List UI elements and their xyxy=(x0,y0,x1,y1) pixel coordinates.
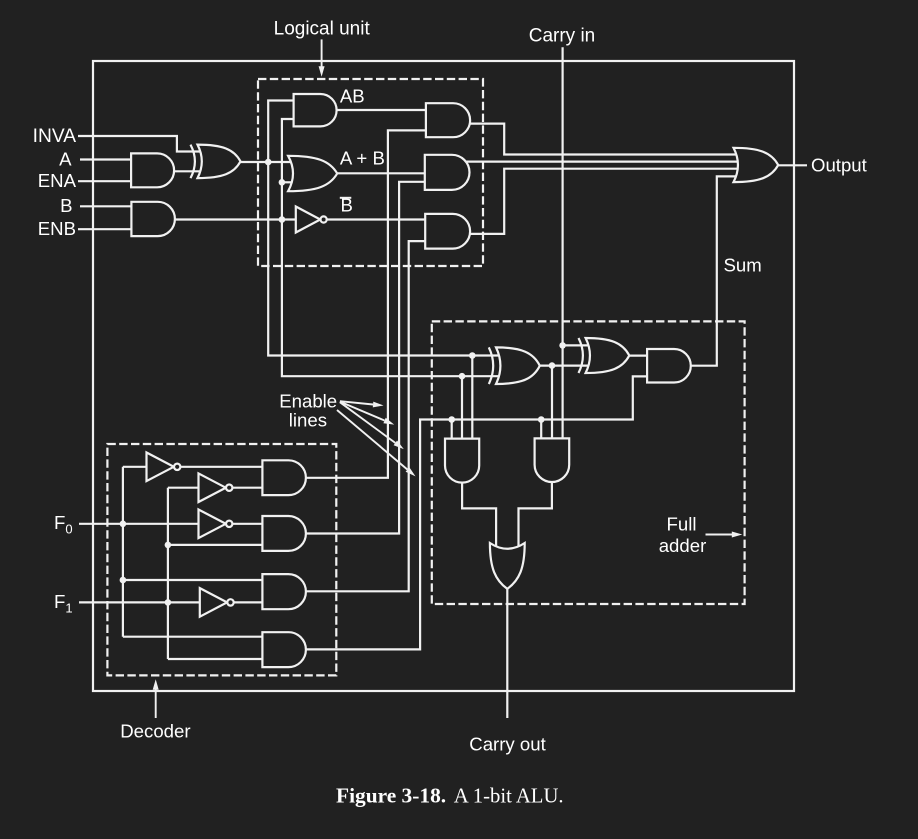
wire decoder bus1 (F0) vertical xyxy=(122,467,124,637)
svg-text:Carry in: Carry in xyxy=(529,26,596,47)
junction XOR1 output branch xyxy=(549,362,556,369)
overline of Bbar label xyxy=(340,197,352,199)
junction enable4 to right carry AND xyxy=(538,416,545,423)
wire branch B line down to left AND xyxy=(461,376,463,440)
and-gate B/ENB xyxy=(131,202,175,236)
and-gate AB xyxy=(294,94,337,126)
svg-text:A 1-bit ALU.: A 1-bit ALU. xyxy=(454,785,564,807)
svg-text:Output: Output xyxy=(811,155,868,176)
wire node B bus: up to AB gate bottom input, down to full adder XOR1 bottom input xyxy=(282,119,502,376)
inverter decoder inv4 triangle xyxy=(200,588,227,617)
inverter decoder inv1 bubble xyxy=(174,464,180,470)
xor-gate FA2 body xyxy=(586,338,630,373)
arrow line enable 3 xyxy=(340,402,395,443)
svg-text:adder: adder xyxy=(659,535,707,556)
arrow line logical unit pointer xyxy=(321,39,323,67)
svg-text:lines: lines xyxy=(289,410,327,431)
inverter decoder inv4 bubble xyxy=(227,599,233,605)
arrow line enable 2 xyxy=(340,402,385,421)
wire branch B bus to OR A+B bottom input xyxy=(282,181,297,183)
wire inv1 output to d1 top input xyxy=(181,466,265,468)
xor-gate FA2 (leading arc) xyxy=(579,338,583,373)
wire bus2 branch to d2 bottom input xyxy=(168,544,264,546)
svg-text:Figure 3-18.: Figure 3-18. xyxy=(336,783,446,807)
wire ENB input xyxy=(78,228,132,230)
and-gate decoder d3 xyxy=(262,574,306,609)
wire enable line 2: decoder d2 output up to LU middle AND bottom input xyxy=(306,182,426,534)
junction B line to left carry AND xyxy=(459,373,466,380)
svg-text:Carry out: Carry out xyxy=(469,734,546,755)
wire enable line 3: decoder d3 output up to LU bottom AND bottom input xyxy=(306,241,427,591)
or-gate output (right side) xyxy=(734,148,779,182)
svg-text:Decoder: Decoder xyxy=(120,721,190,742)
or-gate A+B xyxy=(288,156,337,191)
dashed box decoder xyxy=(107,444,336,675)
wire bus1 to inv1 input xyxy=(123,466,148,468)
xor-gate FA1 (leading arc) xyxy=(489,347,493,384)
outer enclosure box xyxy=(93,61,794,691)
wire LU top AND output to output OR (top of 3 parallel lines) xyxy=(470,124,742,155)
arrow line decoder pointer xyxy=(155,689,157,718)
wire inv4 output to d3 bottom input xyxy=(231,601,264,603)
and-gate sum (FA output AND) xyxy=(647,349,691,383)
wire bus1 to d4 top input xyxy=(123,636,264,638)
and-gate decoder d1 xyxy=(262,460,306,495)
xor-gate A (leading arc) xyxy=(191,145,195,179)
arrow line full adder pointer xyxy=(706,534,733,536)
wire F0 input to inverter inv3 xyxy=(79,523,200,525)
wire bus1 branch to d3 top input xyxy=(123,579,264,581)
and-gate LU bottom (Bbar enable) xyxy=(425,214,470,249)
arrowhead logical unit pointer xyxy=(319,66,325,77)
wire inv3 output to d2 top input xyxy=(232,523,265,525)
junction node A in logical unit xyxy=(265,159,272,166)
and-gate FA carry right (points down) xyxy=(535,438,570,482)
arrowhead enable line 2 xyxy=(383,418,394,425)
inverter Bbar triangle xyxy=(296,207,321,233)
and-gate FA carry left (points down) xyxy=(445,439,479,483)
xor-gate FA1 body xyxy=(496,347,540,384)
wire XOR1 output to XOR2 bottom input xyxy=(540,365,590,367)
wire branch carry-in to XOR2 top input xyxy=(563,344,592,346)
wire XOR2 output to sum AND top input xyxy=(629,355,650,357)
xor-gate A body xyxy=(198,145,241,179)
and-gate LU middle (A+B enable) xyxy=(425,155,470,190)
arrowhead enable line 3 xyxy=(394,441,404,450)
wire AND2 output (B line) to inverter xyxy=(175,218,297,220)
wire bus2 to d4 bottom input xyxy=(168,658,264,660)
wire LU bottom AND output to output OR (bottom parallel line) xyxy=(470,169,742,234)
wire A+B OR output to LU middle AND top input xyxy=(337,172,426,174)
arrow line enable 4 xyxy=(337,410,408,470)
svg-text:INVA: INVA xyxy=(33,126,77,147)
wire inverter Bbar output to LU bottom AND top input xyxy=(327,218,427,220)
wire F1 input to inverter inv4 xyxy=(79,601,201,603)
inverter decoder inv1 triangle xyxy=(147,453,174,482)
and-gate LU top (AB enable) xyxy=(426,103,470,137)
svg-text:Logical unit: Logical unit xyxy=(274,19,371,40)
inverter decoder inv2 bubble xyxy=(226,485,232,491)
junction bus1/d3 branch xyxy=(120,577,127,584)
svg-text:ENB: ENB xyxy=(38,218,76,239)
junction node B on inverter line xyxy=(279,216,286,223)
wire INVA input xyxy=(78,136,202,152)
wire right carry AND output down into carry OR xyxy=(519,482,552,553)
or-gate carry out (points down) xyxy=(490,543,525,589)
wire node A bus: up to AB gate and down to full adder XOR1 top input xyxy=(268,101,502,356)
svg-text:Full: Full xyxy=(667,514,697,535)
wire B input xyxy=(80,205,132,207)
wire inv2 output to d1 bottom input xyxy=(231,487,264,489)
wire Carry in vertical down to full adder right AND xyxy=(561,47,563,440)
wire branch XOR1 output down to right AND xyxy=(551,366,553,440)
svg-text:A: A xyxy=(59,149,72,170)
svg-text:A + B: A + B xyxy=(340,147,385,168)
wire branch enable4 down into right AND xyxy=(540,420,542,441)
junction A line to left carry AND xyxy=(469,352,476,359)
and-gate A/ENA xyxy=(131,153,174,187)
and-gate decoder d4 xyxy=(262,632,306,667)
wire A input xyxy=(80,158,132,160)
wire sum AND output up to output OR bottom input (Sum line) xyxy=(691,176,742,365)
arrowhead enable line 4 xyxy=(406,467,416,476)
inverter decoder inv2 triangle xyxy=(199,473,226,502)
arrow line enable 1 xyxy=(340,401,373,404)
arrowhead decoder pointer xyxy=(153,679,159,690)
junction carry-in branch to XOR2 xyxy=(559,342,566,349)
wire Output line xyxy=(778,164,807,166)
and-gate decoder d2 xyxy=(262,516,306,551)
dashed box logical unit xyxy=(258,79,483,266)
wire LU middle AND output to output OR (middle parallel line) xyxy=(458,161,742,163)
junction enable4 to left carry AND xyxy=(448,416,455,423)
svg-text:Enable: Enable xyxy=(279,391,337,412)
svg-text:ENA: ENA xyxy=(38,170,77,191)
wire enable line 1: decoder d1 output up to LU top AND bottom input xyxy=(306,130,427,477)
wire Carry out xyxy=(506,589,508,719)
inverter decoder inv3 bubble xyxy=(226,521,232,527)
wire branch enable4 down into left AND xyxy=(451,420,453,441)
wire AB gate output to LU top AND top input xyxy=(337,109,427,111)
wire decoder bus2 (F1) vertical xyxy=(167,488,169,659)
arrowhead full adder pointer xyxy=(732,532,743,538)
wire AND1 output to XOR xyxy=(174,170,200,172)
wire enable line 4: decoder d4 output up and right into full adder, to sum AND bottom input xyxy=(306,376,650,649)
wire left carry AND output down into carry OR xyxy=(462,482,496,552)
junction F0 on bus1 xyxy=(120,521,127,528)
svg-text:AB: AB xyxy=(340,86,365,107)
svg-text:B: B xyxy=(341,195,353,216)
arrowhead enable line 1 xyxy=(373,402,384,408)
junction B bus / OR input xyxy=(279,179,286,186)
wire ENA input xyxy=(78,180,132,182)
wire bus2 to inv2 input xyxy=(168,487,200,489)
svg-text:B: B xyxy=(60,195,72,216)
inverter decoder inv3 triangle xyxy=(199,510,226,539)
junction F1 on bus2 xyxy=(165,599,172,606)
wire branch A line down to left AND xyxy=(471,356,473,441)
dashed box full adder xyxy=(432,321,745,604)
svg-text:Sum: Sum xyxy=(724,255,762,276)
wire XOR-A output into logical unit to OR A+B top input xyxy=(241,161,300,163)
junction bus2/d2 branch xyxy=(165,542,172,549)
inverter Bbar bubble xyxy=(321,216,327,222)
